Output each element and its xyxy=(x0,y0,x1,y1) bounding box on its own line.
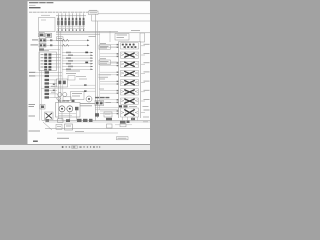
drain mark xyxy=(95,113,99,116)
pilot supply bus xyxy=(56,15,86,17)
gear pump symbol b xyxy=(46,33,52,37)
pilot wire row 2 xyxy=(62,54,93,56)
scatter text c xyxy=(75,131,84,133)
relief row lines xyxy=(95,108,119,110)
work port lines to bank xyxy=(100,45,119,114)
pilot valve bank outline xyxy=(39,51,57,71)
control valve section CV4 xyxy=(121,70,150,76)
valve bodies xyxy=(57,21,84,26)
subtitle line xyxy=(29,4,36,6)
pilot check box xyxy=(104,112,112,117)
pump to bus verticals xyxy=(62,110,77,120)
strip text b xyxy=(51,91,56,93)
pilot valve PV6 xyxy=(44,69,51,71)
scatter text b xyxy=(79,78,87,80)
bus mark left xyxy=(46,119,50,122)
pilot valve PV4 xyxy=(41,63,61,65)
suction strainer mark xyxy=(107,124,113,128)
solenoid strip S5 xyxy=(45,93,58,95)
cluster port dots xyxy=(58,29,84,30)
row valve V1 xyxy=(32,39,90,42)
vertical bus center3 xyxy=(99,31,101,110)
control valve section CV2 xyxy=(121,52,150,58)
vertical bus b xyxy=(60,31,62,103)
vertical bus a xyxy=(58,16,60,119)
pilot valve PV1 xyxy=(41,54,61,56)
option label box 2 xyxy=(99,59,119,65)
title HYDRAULIC CIRCUIT DIAGRAM xyxy=(29,2,54,4)
rail port ticks xyxy=(117,44,119,114)
bus side text b xyxy=(99,88,104,90)
pump port marks xyxy=(72,100,75,102)
row valve V2 xyxy=(31,44,90,47)
row valve V5 xyxy=(29,75,62,77)
gear pump symbol a xyxy=(39,33,45,37)
control valve section CV8 xyxy=(121,108,150,117)
shuttle valve box xyxy=(95,101,111,106)
scatter text a xyxy=(76,76,86,78)
pilot valve PV3 xyxy=(41,60,61,62)
manifold inner label xyxy=(41,19,46,21)
spine vertical xyxy=(54,80,56,98)
control valve section CV1 xyxy=(121,43,150,49)
right bank rail right xyxy=(140,42,142,119)
pilot wire row 4 xyxy=(62,60,93,62)
solenoid strip S2 xyxy=(45,82,58,84)
spine tick a xyxy=(53,84,55,85)
pilot wire row 7 xyxy=(62,68,93,70)
aux box left xyxy=(40,105,45,110)
pilot line bundle to right xyxy=(56,31,150,34)
toolbar icons xyxy=(62,146,100,148)
bottom bus 1 xyxy=(42,120,150,122)
right bank rail left xyxy=(118,42,120,119)
mid junction tick c xyxy=(84,84,87,86)
pilot wire row 5 xyxy=(62,63,93,65)
pump suction circle xyxy=(57,97,60,100)
note fine print bottom xyxy=(57,137,69,139)
pump header text xyxy=(58,100,70,102)
junction tick a xyxy=(85,52,88,54)
pilot valve PV5 xyxy=(41,66,61,68)
cooler box xyxy=(56,124,62,129)
remote control caption xyxy=(89,9,97,11)
cv8 header marks xyxy=(119,105,122,107)
pump drain lines xyxy=(58,114,76,116)
valve group text row xyxy=(95,97,111,99)
inlet section over bank xyxy=(110,31,145,43)
row tags xyxy=(66,52,73,70)
wire L bend xyxy=(92,15,151,21)
option label box 1 xyxy=(99,44,119,50)
changeover valve X xyxy=(45,112,54,120)
note fine print row xyxy=(29,11,88,13)
pilot valve PV2 xyxy=(41,57,61,59)
strip text a xyxy=(51,85,56,87)
toolbar xyxy=(0,144,150,150)
iso note text xyxy=(99,75,112,77)
vertical bus left2 xyxy=(41,71,43,121)
below bank box xyxy=(120,124,126,127)
solenoid valve cluster SV1-SV8 xyxy=(57,13,85,31)
pilot wire row 3 xyxy=(62,57,93,59)
check valve row on bus xyxy=(58,119,93,123)
main manifold outline xyxy=(39,18,56,32)
center labels row xyxy=(80,104,95,106)
control valve section CV7 xyxy=(121,98,150,104)
viewer background xyxy=(0,0,150,150)
left label text rows bottom xyxy=(29,105,41,132)
control valve section CV3 xyxy=(121,61,150,67)
motor circle xyxy=(86,96,92,102)
toolbar border xyxy=(0,143,150,145)
bottom bus 2 xyxy=(45,121,150,123)
mid faint rail xyxy=(41,88,95,90)
solenoid strip S4 xyxy=(45,89,58,91)
pump head box xyxy=(63,97,71,101)
label text in box xyxy=(90,12,98,14)
control valve section CV5 xyxy=(121,80,150,86)
wire long top xyxy=(98,13,150,15)
bus side text a xyxy=(99,78,105,80)
right edge small labels xyxy=(143,117,149,122)
manifold top labels xyxy=(41,14,50,16)
vertical bus center1 xyxy=(95,14,97,121)
vertical bus c xyxy=(62,40,64,96)
pump P2 xyxy=(67,106,73,112)
page number footer xyxy=(33,140,38,142)
option box mid xyxy=(68,76,75,81)
pump P1 xyxy=(59,106,65,112)
vertical bus left xyxy=(39,32,41,121)
solenoid strip S6 xyxy=(45,96,58,98)
row arrows xyxy=(91,52,94,70)
mid wire row b xyxy=(86,90,96,92)
spine tick b xyxy=(53,90,55,91)
junction tick b xyxy=(85,62,88,64)
solenoid coils xyxy=(57,18,84,21)
mid note text xyxy=(66,71,80,74)
accumulator block xyxy=(57,79,68,87)
solenoid strip S3 xyxy=(45,86,58,88)
main pump unit xyxy=(56,103,81,118)
vertical bus center2 xyxy=(97,21,99,118)
tank line xyxy=(57,132,118,134)
control valve section CV6 xyxy=(121,89,150,95)
gauge circle 2 xyxy=(63,92,67,96)
row valve V3 xyxy=(39,48,60,50)
bank drain verticals xyxy=(123,117,138,121)
page xyxy=(28,1,151,144)
row valve V4 xyxy=(29,71,62,73)
sensor box with note xyxy=(57,37,64,41)
bus junction text xyxy=(89,36,97,38)
hydraulic tank label box xyxy=(117,137,129,140)
pilot wire row 6 xyxy=(62,66,93,68)
bank bottom marks xyxy=(106,118,135,124)
heading rule xyxy=(29,7,41,8)
solenoid strip S1 xyxy=(45,79,58,81)
gauge circle 1 xyxy=(58,92,62,96)
filter block xyxy=(71,92,85,100)
pilot pump P3 xyxy=(75,107,79,111)
drain diagonal xyxy=(43,122,52,130)
mid wire row a xyxy=(70,84,96,86)
drain box xyxy=(65,124,73,130)
bank top line xyxy=(119,41,141,43)
pilot wire row 1 xyxy=(62,52,93,54)
mid junction tick d xyxy=(84,90,87,92)
remote control label box xyxy=(89,11,99,15)
cluster cross lines xyxy=(57,27,85,29)
wire rows middle group xyxy=(62,52,93,70)
return bus xyxy=(45,128,150,130)
